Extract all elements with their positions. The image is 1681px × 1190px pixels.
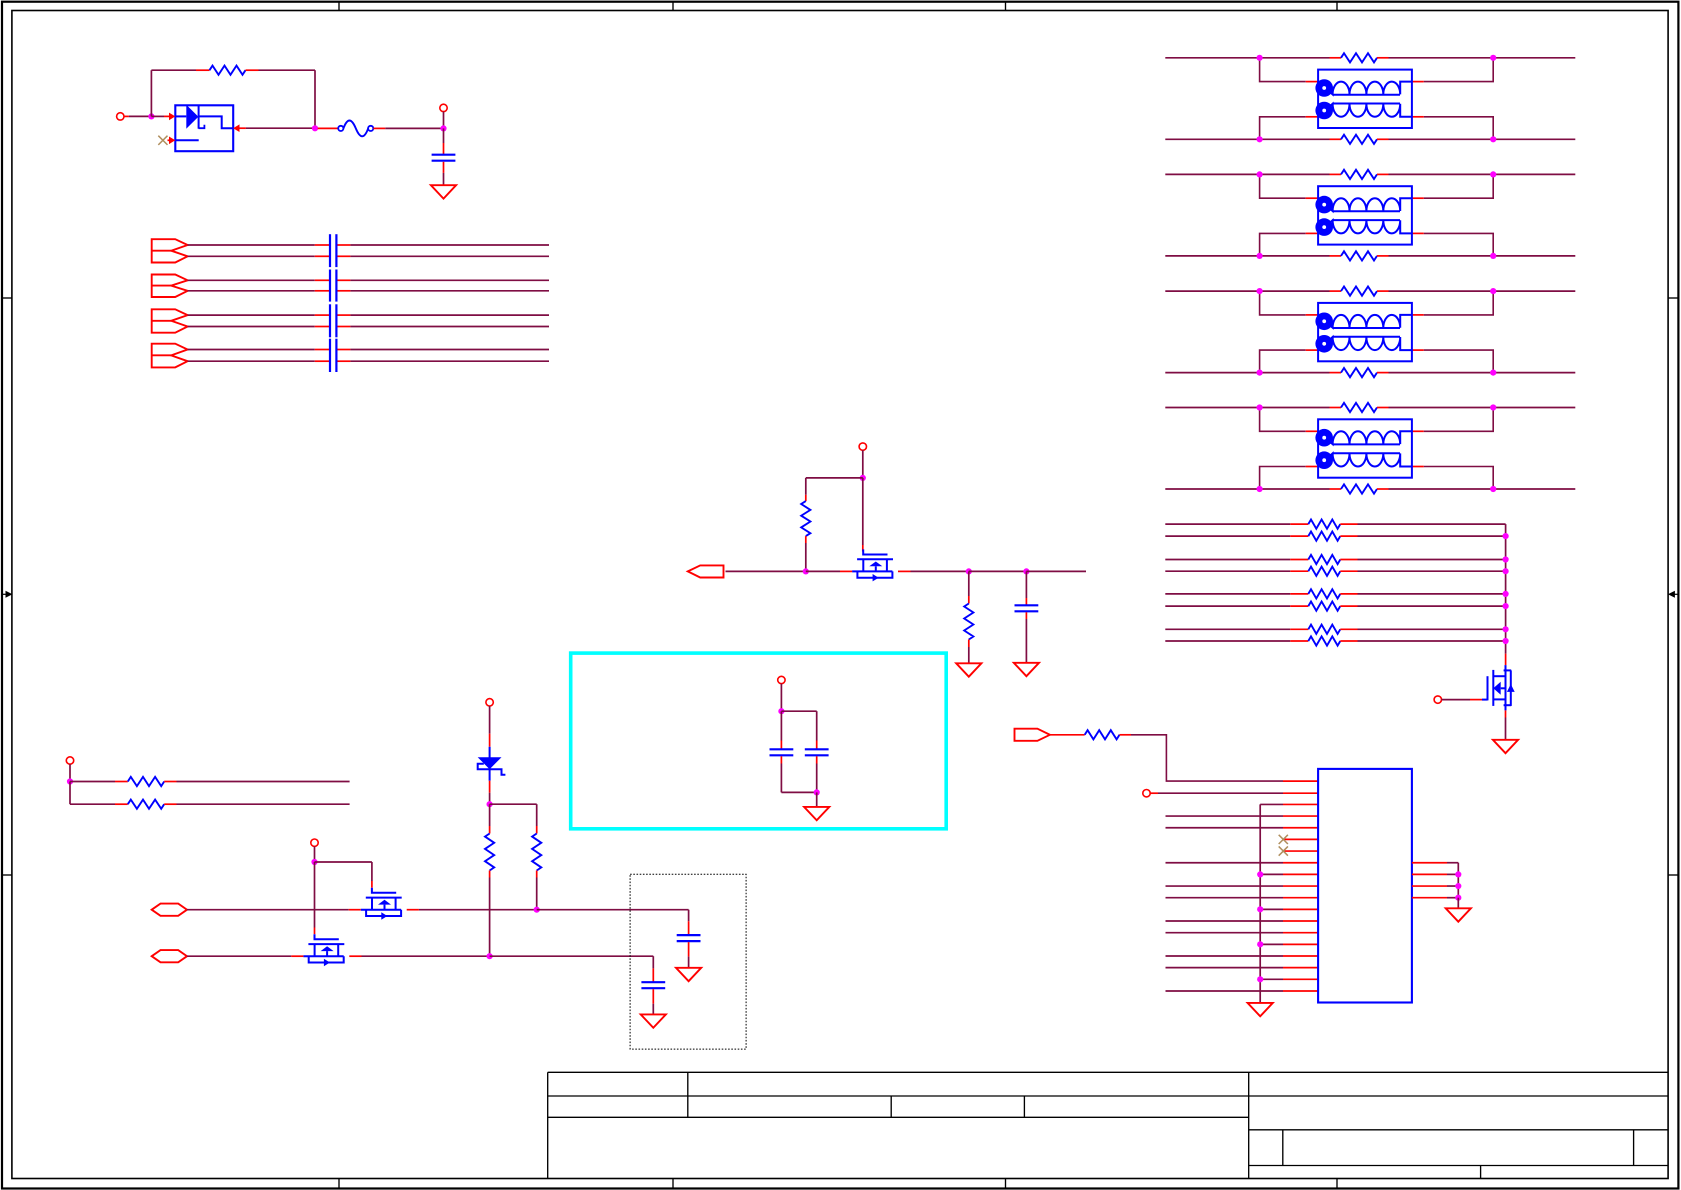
capacitor CB1 lead right: [337, 244, 351, 246]
port P7 (hexagon): [152, 950, 187, 962]
wire J5 down: [69, 764, 71, 781]
XF2 junction bottom-left: [1257, 253, 1263, 259]
U2 pin 7: [1283, 850, 1318, 852]
wire pair3B left: [188, 326, 315, 328]
resistor RA8: [1308, 636, 1340, 645]
wire XF4 upper-right: [1424, 408, 1494, 432]
resistor RA4 lead right: [1340, 570, 1357, 572]
resistor R2 lead top: [805, 495, 807, 501]
port connector P4 (double arrow): [152, 344, 188, 368]
resistor RA5 lead right: [1340, 593, 1357, 595]
border tick top 1: [338, 2, 340, 11]
port connector P2 (double arrow): [152, 275, 188, 298]
U2 pin 13: [1283, 920, 1318, 922]
transformer XF2 upper winding: [1318, 198, 1412, 211]
terminal J8: [1143, 790, 1150, 797]
wire U2 row11: [1166, 897, 1284, 899]
XF4 junction bottom-left: [1257, 486, 1263, 492]
wire RA3 right: [1358, 559, 1506, 561]
wire RA2 right: [1358, 535, 1506, 537]
ground GND3: [956, 663, 981, 676]
U2 pin 12: [1283, 908, 1318, 910]
resistor RT3b lead right: [1377, 372, 1389, 374]
capacitor C5 lead top: [688, 921, 690, 935]
no-connect X on U1 pin 3: [158, 136, 167, 145]
transformer XF3 lower winding: [1318, 337, 1412, 350]
wire C3 bottom: [780, 764, 782, 793]
wire input to node: [124, 115, 129, 117]
capacitor C5: [677, 934, 701, 936]
port connector P1 (double arrow): [152, 239, 188, 262]
resistor R8: [1085, 730, 1120, 739]
port connector P3 (double arrow): [152, 309, 188, 332]
wire node M down: [314, 862, 316, 928]
node B junction: [312, 125, 318, 131]
wire R7 top: [536, 804, 538, 826]
transformer XF3 upper winding: [1318, 315, 1412, 328]
resistor RA3 lead right: [1340, 559, 1357, 561]
capacitor C6 lead top: [652, 968, 654, 982]
resistor RT2b: [1341, 251, 1377, 260]
XF3 lower-left pin: [1306, 349, 1318, 351]
wire C4 top: [816, 711, 818, 740]
resistor RT1b lead left: [1330, 138, 1342, 140]
wire RA6 right: [1358, 605, 1506, 607]
border tick top 3: [1005, 2, 1007, 11]
resistor RT2a: [1341, 170, 1377, 179]
resistor RA1 lead left: [1290, 523, 1308, 525]
XF3 polarity dot upper: [1315, 313, 1333, 331]
U2 pin 14: [1283, 932, 1318, 934]
border tick top 2: [672, 2, 674, 11]
resistor RA5: [1308, 589, 1340, 598]
ground GND1: [431, 185, 456, 198]
U1 pin 1 arrow: [164, 115, 171, 117]
resistor RA2: [1308, 532, 1340, 541]
wire pair1B left: [188, 255, 315, 257]
U2 pin 6: [1283, 838, 1318, 840]
wire XF1 bottom left: [1165, 138, 1329, 140]
Q2 gate lead: [314, 928, 316, 935]
terminal J7: [311, 839, 318, 846]
resistor RA5 lead left: [1290, 593, 1308, 595]
wire pair2A right: [350, 279, 549, 281]
wire top feedback right: [259, 69, 316, 71]
wire XF3 top right: [1389, 290, 1576, 292]
Q4 source lead: [898, 570, 911, 572]
node D junction: [860, 475, 866, 481]
terminal J5: [66, 757, 73, 764]
node M junction: [311, 859, 317, 865]
wire XF2 top right: [1389, 173, 1576, 175]
capacitor CB2 lead right: [337, 255, 351, 257]
J8 stub: [1150, 792, 1158, 794]
wire RA7 right: [1358, 628, 1506, 630]
Q3 source lead: [1505, 710, 1507, 717]
ground GND8: [1248, 1003, 1273, 1016]
XF3 junction bottom-left: [1257, 370, 1263, 376]
XF3 junction bottom-right: [1490, 370, 1496, 376]
wire bus tap row15: [1260, 943, 1283, 945]
fuse F1 lead right: [373, 127, 385, 129]
title block: [548, 1071, 1668, 1073]
wire R2 bottom: [805, 543, 807, 571]
wire C2 top: [1025, 571, 1027, 598]
capacitor CB7 lead left: [315, 349, 330, 351]
capacitor CB3 lead right: [337, 279, 351, 281]
resistor RA2 lead left: [1290, 535, 1308, 537]
wire XF3 lower-right: [1424, 350, 1494, 373]
Q3 gate lead: [1470, 699, 1482, 701]
wire RA vertical join: [1505, 524, 1507, 654]
resistor RA4: [1308, 567, 1340, 576]
terminal J3 supply: [859, 443, 866, 450]
wire pair2B left: [188, 290, 315, 292]
wire row2 down: [652, 956, 654, 968]
wire XF1 bottom right: [1389, 138, 1576, 140]
XF2 lower-right pin: [1412, 232, 1424, 234]
capacitor C3 lead bottom: [780, 756, 782, 763]
Q1 gate lead: [371, 881, 373, 888]
capacitor C5 lead bottom: [688, 942, 690, 957]
XF3 upper-right pin: [1412, 314, 1424, 316]
resistor RT4b lead right: [1377, 488, 1389, 490]
wire U1 pin2 to node B: [246, 127, 315, 129]
capacitor C6: [641, 981, 665, 983]
capacitor pair 4 plates: [329, 339, 331, 372]
resistor RT3a lead right: [1377, 290, 1389, 292]
XF3 polarity dot lower: [1315, 335, 1333, 353]
transistor Q3: [1505, 665, 1507, 670]
wire pair1A left: [188, 244, 315, 246]
XF2 polarity dot lower: [1315, 218, 1333, 236]
wire node C down: [443, 128, 445, 143]
ground GND9: [1446, 908, 1471, 921]
XF2 upper-right pin: [1412, 197, 1424, 199]
wire bus corner: [1260, 803, 1283, 805]
wire R3 top: [968, 571, 970, 596]
resistor RT1a lead right: [1377, 57, 1389, 59]
wire C1 to ground: [443, 173, 445, 185]
U2 right pin 4: [1412, 897, 1447, 899]
U2 pin 9: [1283, 873, 1318, 875]
transformer XF4 box: [1318, 419, 1412, 477]
wire U2 row4: [1166, 815, 1284, 817]
resistor RT3b: [1341, 368, 1377, 377]
resistor RT4b: [1341, 484, 1377, 493]
node F junction: [966, 568, 972, 574]
XF4 junction top-left: [1257, 404, 1263, 410]
wire Q2 to node O: [362, 955, 490, 957]
resistor RT1b lead right: [1377, 138, 1389, 140]
capacitor CB3 lead left: [315, 279, 330, 281]
right join wire: [1457, 898, 1459, 909]
RA junction 1: [1503, 533, 1509, 539]
wire pair1B right: [350, 255, 549, 257]
capacitor C4: [805, 748, 829, 750]
capacitor C2 lead top: [1025, 598, 1027, 605]
wire feedback down: [314, 70, 316, 128]
wire RA8 left: [1165, 640, 1290, 642]
resistor RA6: [1308, 602, 1340, 611]
wire node A to U1: [151, 115, 164, 117]
wire R6 top: [489, 804, 491, 826]
border tick bottom 1: [338, 1179, 340, 1189]
terminal J1 input: [117, 113, 124, 120]
border tick bottom 4: [1336, 1179, 1338, 1189]
transistor Q2: [315, 934, 339, 939]
resistor R8 lead left: [1050, 734, 1085, 736]
wire P5 to R2: [726, 570, 806, 572]
wire RA5 left: [1165, 593, 1290, 595]
wire node M right: [315, 861, 372, 863]
resistor RT3a lead left: [1330, 290, 1342, 292]
capacitor CB6 lead left: [315, 326, 330, 328]
resistor R7: [532, 834, 541, 871]
wire node N right: [537, 909, 689, 911]
resistor RA4 lead left: [1290, 570, 1308, 572]
wire node O right: [490, 955, 654, 957]
XF1 junction bottom-right: [1490, 136, 1496, 142]
RA junction 2: [1503, 556, 1509, 562]
XF2 junction top-left: [1257, 171, 1263, 177]
no-connect X pin 7: [1279, 846, 1288, 855]
wire U2 row14: [1166, 932, 1284, 934]
wire U2 row16: [1166, 955, 1284, 957]
resistor R6: [485, 834, 494, 871]
wire XF3 lower-left rise: [1260, 350, 1306, 373]
U1 internal wiring: [199, 116, 234, 128]
wire XF2 upper-right: [1424, 174, 1494, 198]
capacitor C4 lead bottom: [816, 756, 818, 763]
wire bus tap row18: [1260, 978, 1283, 980]
U1 pin 3 arrow: [168, 139, 171, 141]
resistor RA6 lead right: [1340, 605, 1357, 607]
U2 pin 2: [1283, 792, 1318, 794]
transformer XF1 upper winding: [1318, 82, 1412, 95]
transformer XF1 core: [1333, 94, 1400, 96]
resistor RT2b lead right: [1377, 255, 1389, 257]
wire C2 bottom: [1025, 619, 1027, 663]
capacitor CB8 lead right: [337, 360, 351, 362]
XF4 junction top-right: [1490, 404, 1496, 410]
capacitor CB4 lead right: [337, 290, 351, 292]
capacitor C1: [432, 154, 456, 156]
capacitor C1 lead top: [443, 143, 445, 155]
zener diode D2: [489, 747, 491, 781]
resistor RT1a lead left: [1330, 57, 1342, 59]
capacitor CB2 lead left: [315, 255, 330, 257]
wire pair4A left: [188, 349, 315, 351]
XF2 junction top-right: [1490, 171, 1496, 177]
resistor RT2b lead left: [1330, 255, 1342, 257]
wire U2 row13: [1166, 920, 1284, 922]
right pin junction 1: [1455, 871, 1461, 877]
resistor R2 lead bottom: [805, 536, 807, 543]
resistor R2: [801, 501, 810, 536]
XF3 upper-left pin: [1306, 314, 1318, 316]
U2 pin 18: [1283, 978, 1318, 980]
resistor RT1b: [1341, 135, 1377, 144]
U2 pin 19: [1283, 990, 1318, 992]
U2 pin 3: [1283, 803, 1318, 805]
wire RA1 right: [1358, 523, 1506, 525]
border tick bottom 2: [672, 1179, 674, 1189]
wire XF1 lower-left rise: [1260, 117, 1306, 140]
wire bus tap row12: [1260, 908, 1283, 910]
resistor R4: [128, 777, 164, 786]
wire R8 to U2 pin1: [1131, 735, 1283, 781]
wire XF3 bottom right: [1389, 372, 1576, 374]
wire XF2 bottom left: [1165, 255, 1329, 257]
transistor Q4: [863, 549, 887, 554]
wire R6 bottom: [489, 878, 491, 957]
Q3 gate terminal: [1434, 696, 1441, 703]
resistor RA1 lead right: [1340, 523, 1357, 525]
capacitor CB7 lead right: [337, 349, 351, 351]
fuse F1 lead left: [318, 127, 339, 129]
wire Q1 to node N: [419, 909, 537, 911]
node I junction: [814, 789, 820, 795]
diode box U1 outline: [175, 105, 233, 151]
ground GND2: [1493, 740, 1518, 753]
XF4 polarity dot lower: [1315, 451, 1333, 469]
resistor R4 lead right: [164, 781, 176, 783]
wire U2 row5: [1166, 827, 1284, 829]
resistor R6 lead top: [489, 826, 491, 834]
wire pair3A right: [350, 314, 549, 316]
resistor RA2 lead right: [1340, 535, 1357, 537]
border tick left 2: [2, 874, 12, 876]
resistor R5 lead right: [164, 803, 176, 805]
U2 pin 10: [1283, 885, 1318, 887]
wire RA5 right: [1358, 593, 1506, 595]
RA junction 5: [1503, 603, 1509, 609]
terminal J6: [486, 699, 493, 706]
transistor Q1: [372, 888, 396, 893]
wire RA4 left: [1165, 570, 1290, 572]
capacitor pair 3 plates: [329, 304, 331, 337]
wire Q4 to node F: [911, 570, 969, 572]
wire C3 top: [780, 711, 782, 740]
Q3 drain lead: [1505, 654, 1507, 665]
XF1 lower-left pin: [1306, 116, 1318, 118]
resistor RA3 lead left: [1290, 559, 1308, 561]
port P5 (left arrow): [688, 565, 724, 577]
bus junction row18: [1257, 976, 1263, 982]
wire XF1 lower-right: [1424, 117, 1494, 140]
transformer XF3 core: [1333, 327, 1400, 329]
U1 pin 2 arrow: [233, 124, 239, 132]
Q3 source wire: [1505, 718, 1507, 740]
wire C4 bottom: [816, 764, 818, 793]
wire J2 down: [443, 112, 445, 129]
wire rowB right: [177, 803, 350, 805]
zener D2 lead top: [489, 734, 491, 747]
U2 right pin 2: [1412, 873, 1447, 875]
ground bus vertical: [1259, 804, 1261, 1002]
resistor RA7 lead right: [1340, 628, 1357, 630]
capacitor CB8 lead left: [315, 360, 330, 362]
border centerline arrow right: [1673, 593, 1679, 595]
wire XF1 upper-left drop: [1260, 58, 1306, 82]
wire C5 to ground: [688, 957, 690, 968]
U2 right pin 1: [1412, 862, 1447, 864]
wire RA3 left: [1165, 559, 1290, 561]
wire U2 row17: [1166, 967, 1284, 969]
wire RA4 right: [1358, 570, 1506, 572]
node K junction: [67, 778, 73, 784]
fuse F1: [338, 126, 343, 131]
Q2 drain lead: [291, 955, 303, 957]
wire RA8 right: [1358, 640, 1506, 642]
transformer XF2 core: [1333, 210, 1400, 212]
resistor R5: [128, 800, 164, 809]
highlight box: [571, 653, 947, 829]
transformer XF2 box: [1318, 186, 1412, 244]
wire RA2 left: [1165, 535, 1290, 537]
Q4 drain lead: [840, 570, 852, 572]
wire pair4A right: [350, 349, 549, 351]
Q2 source lead: [349, 955, 361, 957]
wire fuse to node C: [385, 127, 443, 129]
XF4 polarity dot upper: [1315, 429, 1333, 447]
wire node D down: [862, 478, 864, 545]
bus junction row12: [1257, 906, 1263, 912]
node O junction: [487, 953, 493, 959]
XF1 upper-right pin: [1412, 81, 1424, 83]
ground GND5: [804, 807, 829, 820]
U2 pin 17: [1283, 967, 1318, 969]
transformer XF1 lower winding: [1318, 104, 1412, 117]
wire row1 down: [688, 910, 690, 922]
wire node L right: [490, 803, 537, 805]
XF2 junction bottom-right: [1490, 253, 1496, 259]
transformer XF4 upper winding: [1318, 431, 1412, 444]
wire node D left: [806, 477, 863, 479]
resistor R3 lead bottom: [968, 640, 970, 648]
U2 pin 4: [1283, 815, 1318, 817]
capacitor C4 lead top: [816, 741, 818, 750]
wire XF2 lower-left rise: [1260, 233, 1306, 256]
zener D2 lead bottom: [489, 781, 491, 793]
right pin junction 2: [1455, 883, 1461, 889]
wire node F to node G: [969, 570, 1027, 572]
Q4 gate lead: [862, 545, 864, 552]
resistor R8 lead right: [1120, 734, 1132, 736]
wire top feedback left: [151, 69, 196, 71]
U2 pin 1: [1283, 780, 1318, 782]
bus junction row9: [1257, 871, 1263, 877]
capacitor CB5 lead left: [315, 314, 330, 316]
resistor RT4a lead left: [1330, 407, 1342, 409]
port P8 (right arrow): [1015, 729, 1050, 741]
node G junction: [1023, 568, 1029, 574]
wire J6 down: [489, 706, 491, 734]
transformer XF1 box: [1318, 70, 1412, 128]
wire XF2 lower-right: [1424, 233, 1494, 256]
right pin junction 3: [1455, 895, 1461, 901]
resistor RT4a: [1341, 403, 1377, 412]
ground GND4: [1014, 663, 1039, 676]
wire U2 row10: [1166, 885, 1284, 887]
wire XF2 upper-left drop: [1260, 174, 1306, 198]
resistor RA8 lead left: [1290, 640, 1308, 642]
XF3 junction top-right: [1490, 288, 1496, 294]
wire node K down: [69, 782, 71, 805]
transformer XF2 lower winding: [1318, 220, 1412, 233]
capacitor CB4 lead left: [315, 290, 330, 292]
